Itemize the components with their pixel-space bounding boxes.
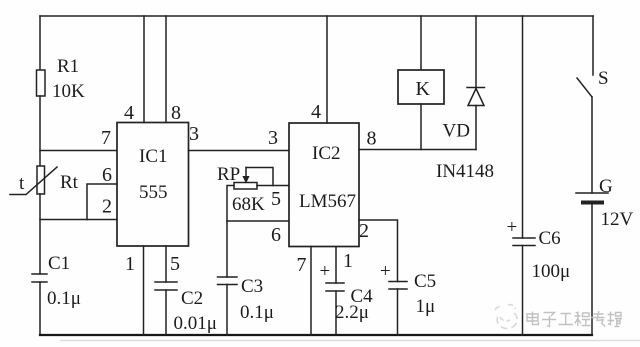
wire IC2 pin6 [227,220,289,222]
svg-text:7: 7 [297,254,307,276]
wire IC1 pin5 [165,246,167,282]
capacitor C4 [326,283,344,291]
svg-text:C1: C1 [48,253,70,274]
wire IC1 pin7 [40,150,117,152]
svg-text:10K: 10K [52,81,85,102]
svg-text:IC2: IC2 [312,143,341,164]
op-amp U1: IC1 555 box [117,123,189,247]
wire IC2 pin8 to K and VD [359,149,476,151]
svg-text:C2: C2 [181,288,203,309]
wire diode VD branch upper [475,16,477,88]
wire C3 to rail [226,285,228,336]
capacitor C5 [389,282,407,290]
wire bottom rail [40,334,592,336]
wire IC2 pin2 jog [359,220,398,282]
svg-text:2.2μ: 2.2μ [335,302,369,323]
wire C2 to rail [165,290,167,335]
svg-text:12V: 12V [601,209,634,230]
wire right rail mid [591,97,593,193]
watermark text zi [542,313,556,327]
svg-text:555: 555 [139,182,168,203]
svg-text:4: 4 [124,102,134,124]
watermark text gong [559,314,574,325]
svg-text:C3: C3 [241,276,263,297]
capacitor C1 [32,274,47,282]
svg-text:3: 3 [189,123,199,145]
svg-text:IN4148: IN4148 [436,161,494,182]
svg-text:LM567: LM567 [299,191,356,212]
svg-text:6: 6 [271,224,281,246]
thermistor Rt diagonal [10,167,57,195]
svg-text:0.1μ: 0.1μ [240,302,274,323]
wire RP left terminal [227,186,234,222]
wire RP wiper jog [246,168,273,186]
shadow line below bottom rail [60,340,640,342]
wire IC1 pin3 to IC2 pin3 [189,150,290,152]
wire IC1 pin8 [165,16,167,123]
wire left rail mid2 [39,194,41,274]
svg-text:8: 8 [367,128,377,150]
wire relay K branch lower [420,104,422,150]
wire RP right terminal to IC2 pin5 [257,185,289,187]
svg-text:1: 1 [343,250,353,272]
svg-text:7: 7 [101,127,111,149]
svg-text:68K: 68K [232,194,265,215]
wire left rail mid1 [39,96,41,166]
svg-text:+: + [507,217,518,238]
potentiometer RP wiper arrow [242,168,249,184]
wire C6 to rail [522,246,524,336]
svg-text:G: G [599,176,613,197]
wire right rail upper [592,16,594,75]
wire top rail [40,15,593,17]
svg-text:0.1μ: 0.1μ [47,288,81,309]
svg-text:K: K [416,78,431,100]
watermark text ji [608,312,623,327]
svg-text:0.01μ: 0.01μ [174,313,217,334]
diode VD [467,88,485,106]
svg-text:Rt: Rt [60,172,79,193]
wire IC2 pin1 [335,247,337,284]
svg-text:3: 3 [268,127,278,149]
wire C6 branch upper [522,16,524,238]
battery G [576,193,608,203]
capacitor C6 [513,238,535,246]
wire IC2 pin7 [310,247,312,336]
svg-text:2: 2 [359,220,369,242]
resistor R1 [37,70,46,96]
watermark text zhuan [592,311,606,327]
svg-text:5: 5 [170,253,180,275]
svg-text:1μ: 1μ [416,296,436,317]
svg-text:t: t [19,173,25,194]
svg-text:+: + [380,261,391,282]
svg-text:1: 1 [125,253,135,275]
svg-text:2: 2 [102,196,112,218]
wire IC1 pin2 [40,219,117,221]
wire relay K branch upper [420,16,422,70]
thermistor Rt body [37,166,45,194]
svg-text:6: 6 [102,164,112,186]
svg-text:S: S [598,68,609,89]
svg-text:100μ: 100μ [532,261,571,282]
svg-text:RP: RP [217,164,240,185]
svg-text:C6: C6 [539,228,561,249]
svg-text:R1: R1 [57,56,79,77]
wire diode VD branch lower [475,106,477,150]
svg-text:VD: VD [443,121,470,142]
wire pin6 down to C3 [226,221,228,277]
capacitor C3 [218,277,238,285]
svg-text:IC1: IC1 [139,146,168,167]
relay K box [398,70,444,104]
wire C5 to rail [397,289,399,335]
wire IC1 pin4 [143,16,145,123]
capacitor C2 [155,282,177,290]
watermark text cheng [575,312,591,327]
svg-text:5: 5 [271,188,281,210]
watermark logo [495,305,517,329]
wire C4 to rail [335,291,337,335]
svg-text:C5: C5 [414,271,436,292]
switch S blade [577,78,592,97]
wire IC1 pin6 [87,184,117,220]
svg-text:+: + [320,261,331,282]
wire left rail lower [39,282,41,335]
svg-text:4: 4 [311,101,321,123]
wire right rail lower [591,205,593,336]
wire IC1 pin1 [143,246,145,335]
op-amp U2: IC2 LM567 box [289,123,359,247]
wire left rail upper [39,16,41,70]
potentiometer RP body [234,183,257,190]
svg-text:8: 8 [171,102,181,124]
watermark text dian [527,312,539,325]
wire IC2 pin4 [326,16,328,123]
